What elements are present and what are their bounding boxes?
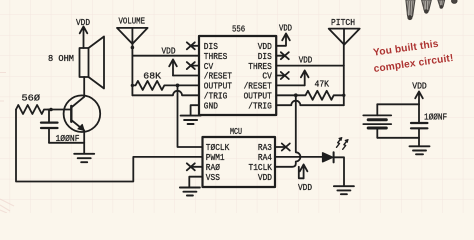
svg-text:/TRIG: /TRIG (248, 100, 272, 111)
no-connect X pin CV (556 left) (187, 62, 199, 69)
doodle pin 3 (438, 0, 445, 9)
power flag VDD (556 right pin) (276, 34, 290, 46)
no-connect X pin DIS (556 left) (187, 42, 199, 49)
power flag VDD (/RESET left) (169, 60, 199, 76)
no-connect X pin RA3 (MCU right) (275, 144, 290, 151)
power flag VDD (battery) (415, 92, 423, 105)
battery BT1 (363, 104, 391, 138)
no-connect X pin RA0 (MCU left) (187, 163, 203, 170)
node base/cap junction (49, 108, 53, 112)
antenna VOLUME (117, 28, 148, 95)
wire emitter down (83, 131, 85, 154)
capacitor C2 100NF (411, 104, 427, 138)
power flag VDD (T1CLK) (299, 165, 308, 179)
svg-text:VDD: VDD (412, 82, 427, 92)
wire RA4 to LED (275, 156, 323, 158)
LED D1 (323, 152, 334, 162)
svg-text:PITCH: PITCH (331, 18, 355, 28)
svg-text:VOLUME: VOLUME (119, 17, 146, 27)
svg-text:VSS: VSS (206, 172, 220, 183)
IC U2 MCU box (203, 137, 276, 187)
svg-text:VDD: VDD (162, 47, 176, 57)
transistor Q1 (64, 95, 101, 132)
wire 556 output down to T1CLK (hop over RA4 wire) (275, 95, 300, 167)
wire LED cathode to ground (334, 157, 344, 185)
wire GND pin (191, 105, 199, 115)
wire THRES right to pitch stem (276, 65, 344, 67)
IC U1 556 box (199, 36, 276, 115)
svg-text:8 OHM: 8 OHM (48, 54, 74, 64)
ground (LED) (334, 186, 354, 194)
wire VSS to ground (189, 177, 202, 187)
resistor R1 68K (132, 81, 199, 90)
node output-right junction (294, 93, 298, 97)
ground (556 GND) (181, 116, 201, 124)
antenna PITCH (329, 29, 360, 106)
node 68k/stem junction (131, 84, 134, 87)
svg-text:56Ø: 56Ø (22, 94, 41, 104)
power flag VDD (speaker) (80, 27, 88, 49)
wire THRES to volume stem (132, 55, 199, 57)
svg-text:1ØØNF: 1ØØNF (424, 113, 447, 123)
wire speaker to collector (83, 77, 85, 97)
node volume stem (131, 46, 135, 50)
node 47k/stem junction (342, 94, 345, 97)
no-connect X pin CV (556 right) (276, 72, 289, 79)
wire battery bottom to cap/ground (377, 138, 419, 146)
ground (battery) (410, 146, 430, 154)
svg-text:1ØØNF: 1ØØNF (56, 134, 80, 144)
svg-text:VDD: VDD (279, 24, 292, 34)
wire cap to emitter (49, 142, 84, 144)
wire output junction down to T0CLK (178, 85, 203, 147)
ground (emitter) (74, 154, 94, 162)
svg-text:68K: 68K (143, 72, 161, 82)
node output-left junction (176, 84, 180, 88)
svg-text:47K: 47K (315, 80, 330, 90)
svg-text:GND: GND (204, 100, 218, 111)
wire base (48, 109, 71, 111)
capacitor C3 100NF (41, 110, 58, 143)
svg-text:MCU: MCU (230, 127, 242, 137)
note handwritten red (371, 37, 455, 75)
wire 560 left leg down and along bottom to PWM1 (16, 110, 203, 182)
doodle pin 4 (452, 0, 458, 3)
speaker LS1 (80, 37, 105, 89)
svg-text:556: 556 (232, 25, 245, 35)
svg-text:VDD: VDD (76, 18, 90, 28)
wire /TRIG left with hop (132, 91, 199, 96)
no-connect X pin DIS (556 right) (276, 52, 289, 59)
wire battery top to VDD/cap (377, 103, 419, 105)
ground (MCU VSS) (180, 188, 200, 196)
doodle pin 1 (406, 0, 415, 20)
doodle pin 2 (422, 0, 432, 14)
LED emission arrows (337, 138, 349, 150)
resistor R2 47K (276, 91, 344, 100)
svg-text:VDD: VDD (299, 56, 313, 66)
power flag VDD (/RESET right) (276, 71, 308, 86)
resistor R3 560 (16, 105, 48, 114)
wire /TRIG right with hop (276, 101, 344, 106)
svg-text:VDD: VDD (298, 183, 312, 193)
svg-text:VDD: VDD (258, 172, 272, 183)
